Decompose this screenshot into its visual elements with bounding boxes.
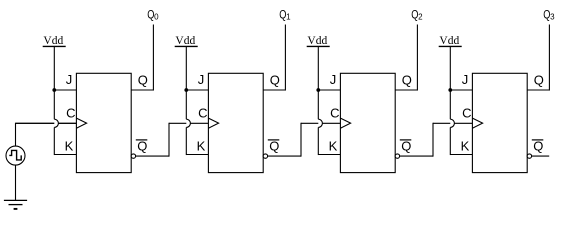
clock edge triangle (stage 4): [472, 118, 482, 128]
wire C input (stage 4): [433, 122, 472, 124]
svg-text:K: K: [461, 138, 470, 153]
JK flip-flop U4 box: [472, 73, 527, 172]
wire J-to-K stem lower: [185, 127, 187, 155]
wire hop over C wire: [450, 119, 454, 127]
JK flip-flop U2 box: [208, 73, 263, 172]
wire C input (stage 1, from clock): [16, 122, 77, 124]
svg-text:Vdd: Vdd: [43, 35, 63, 47]
JK flip-flop U3 box: [340, 73, 395, 172]
clock edge triangle (stage 2): [208, 118, 218, 128]
svg-text:Q: Q: [138, 73, 148, 88]
svg-text:Vdd: Vdd: [307, 35, 327, 47]
wire J-to-K stem upper: [53, 90, 55, 119]
svg-text:K: K: [197, 138, 206, 153]
svg-text:Vdd: Vdd: [175, 35, 195, 47]
svg-text:K: K: [329, 138, 338, 153]
wire hop over C wire: [318, 119, 322, 127]
wire Q riser to Q3 label: [548, 25, 550, 91]
svg-text:Q: Q: [269, 138, 279, 153]
svg-text:C: C: [66, 106, 75, 121]
wire Qbar riser to next C: [300, 123, 302, 157]
node J junction dot (stage 4): [448, 88, 452, 92]
pin label Qbar: [532, 138, 544, 153]
wire Vdd stem: [185, 46, 187, 90]
wire clock to first C input: [16, 122, 77, 124]
wire J-to-K stem lower: [449, 127, 451, 155]
wire Q riser to Q1 label: [284, 25, 286, 91]
wire J-to-K stem upper: [317, 90, 319, 119]
ground symbol: [4, 200, 27, 209]
svg-text:2: 2: [418, 12, 423, 21]
label Q3: [543, 10, 555, 22]
wire J-to-K stem lower: [317, 127, 319, 155]
svg-text:Q: Q: [534, 73, 544, 88]
wire Q output: [131, 89, 153, 91]
svg-text:3: 3: [550, 12, 555, 21]
svg-text:J: J: [198, 72, 205, 87]
svg-text:Q: Q: [270, 73, 280, 88]
clock edge triangle (stage 1): [76, 118, 86, 128]
svg-text:0: 0: [154, 12, 159, 21]
svg-text:J: J: [330, 72, 337, 87]
wire J input: [186, 89, 208, 91]
wire hop over C wire: [54, 119, 58, 127]
wire Vdd stem: [449, 46, 451, 90]
wire Qbar riser to next C: [432, 123, 434, 157]
node J junction dot (stage 1): [52, 88, 56, 92]
JK flip-flop U1 box: [76, 73, 131, 172]
power symbol Vdd (stage 1): [43, 35, 66, 47]
svg-text:1: 1: [286, 12, 291, 21]
svg-text:C: C: [330, 106, 339, 121]
wire Q output: [395, 89, 417, 91]
wire clock riser: [15, 123, 17, 146]
power symbol Vdd (stage 3): [307, 35, 330, 47]
pin label Qbar: [268, 138, 280, 153]
power symbol Vdd (stage 4): [439, 35, 462, 47]
wire K input: [186, 154, 208, 156]
wire Qbar output: [400, 155, 433, 157]
wire Qbar riser to next C: [168, 123, 170, 157]
svg-text:C: C: [462, 106, 471, 121]
power symbol Vdd (stage 2): [175, 35, 198, 47]
wire Qbar output stub: [532, 155, 550, 157]
pin label Qbar: [400, 138, 412, 153]
wire K input: [318, 154, 340, 156]
pin label Qbar: [136, 138, 148, 153]
inverted output bubble (stage 3): [395, 154, 399, 158]
svg-text:Q: Q: [402, 73, 412, 88]
wire Q output: [263, 89, 285, 91]
wire K input: [54, 154, 76, 156]
wire Vdd stem: [53, 46, 55, 90]
wire Q riser to Q0 label: [152, 25, 154, 91]
node J junction dot (stage 2): [184, 88, 188, 92]
svg-text:K: K: [65, 138, 74, 153]
wire Qbar output: [268, 155, 301, 157]
wire J input: [54, 89, 76, 91]
wire Q output: [527, 89, 549, 91]
wire J-to-K stem upper: [185, 90, 187, 119]
svg-text:C: C: [198, 106, 207, 121]
wire Q riser to Q2 label: [416, 25, 418, 91]
wire clock to ground: [15, 165, 17, 200]
clock square-wave glyph: [9, 150, 21, 160]
wire C input (stage 2): [169, 122, 208, 124]
wire J-to-K stem upper: [449, 90, 451, 119]
label Q0: [147, 10, 159, 22]
svg-text:Q: Q: [401, 138, 411, 153]
wire J input: [450, 89, 472, 91]
label Q2: [411, 10, 423, 22]
svg-text:J: J: [462, 72, 469, 87]
clock edge triangle (stage 3): [340, 118, 350, 128]
inverted output bubble (stage 2): [263, 154, 267, 158]
node J junction dot (stage 3): [316, 88, 320, 92]
wire Vdd stem: [317, 46, 319, 90]
wire J-to-K stem lower: [53, 127, 55, 155]
svg-text:Vdd: Vdd: [439, 35, 459, 47]
wire Qbar output: [136, 155, 169, 157]
clock source V1 circle: [6, 146, 25, 165]
inverted output bubble (stage 1): [131, 154, 135, 158]
wire C input (stage 3): [301, 122, 340, 124]
svg-text:Q: Q: [137, 138, 147, 153]
label Q1: [279, 10, 291, 22]
svg-text:J: J: [66, 72, 73, 87]
wire hop over C wire: [186, 119, 190, 127]
wire K input: [450, 154, 472, 156]
svg-text:Q: Q: [533, 138, 543, 153]
wire J input: [318, 89, 340, 91]
inverted output bubble (stage 4): [527, 154, 531, 158]
